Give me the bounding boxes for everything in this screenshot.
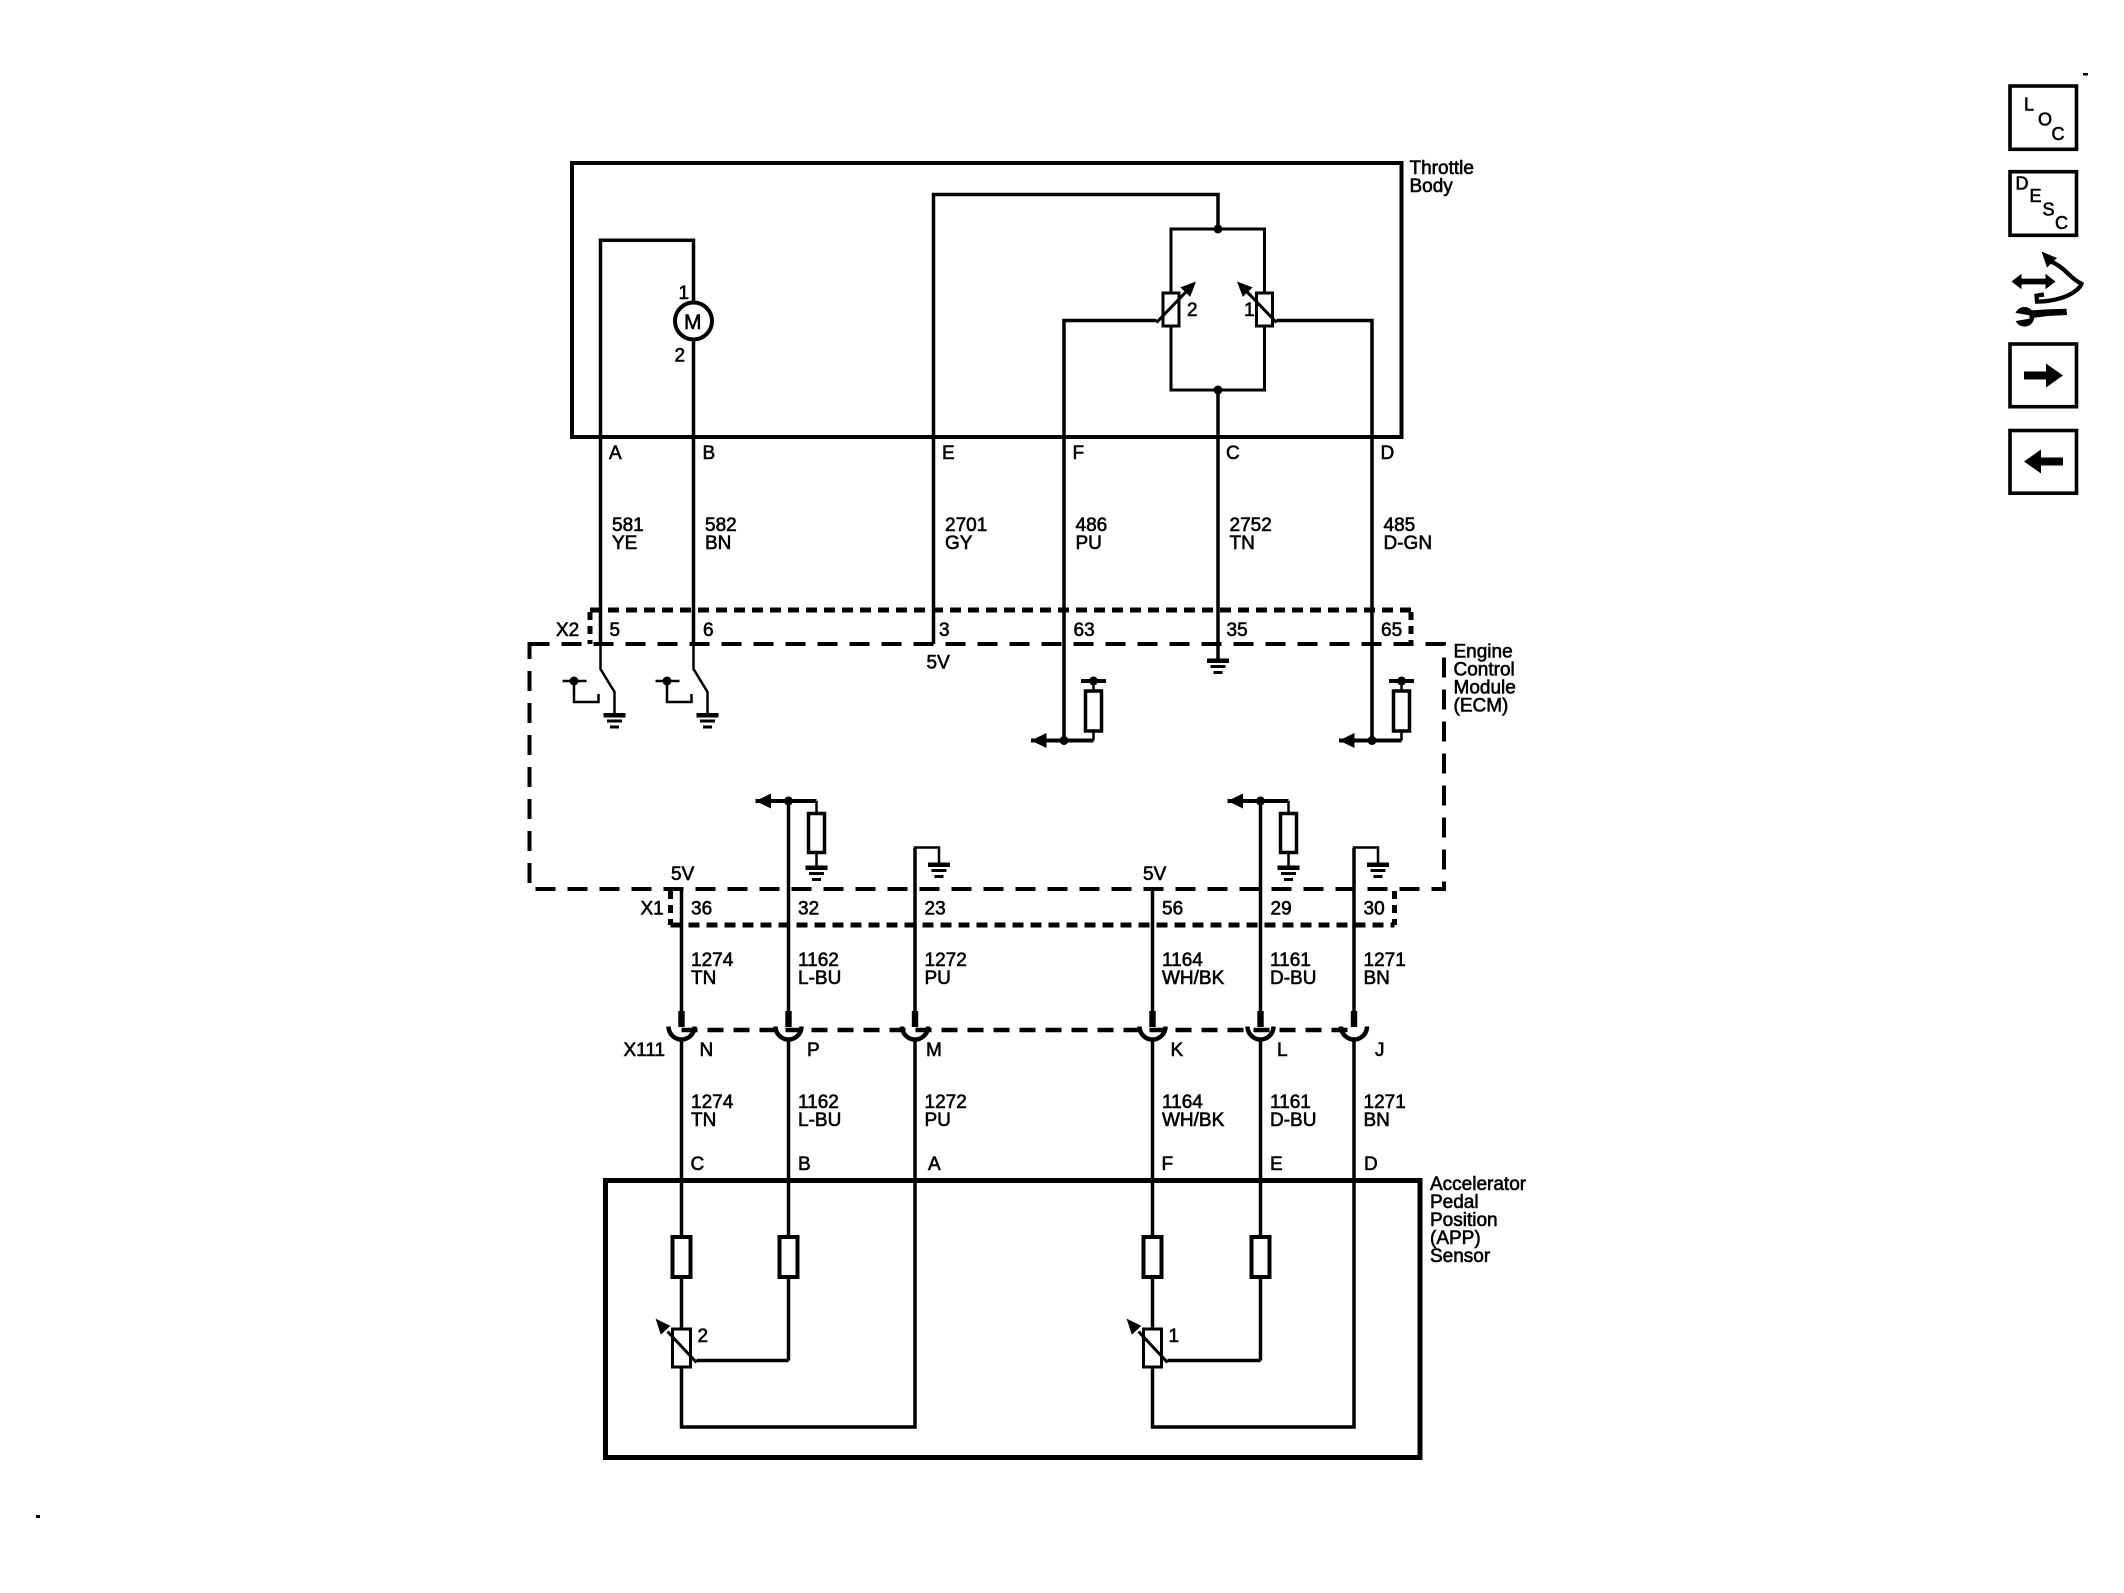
wire pin A to motor pin 1 xyxy=(601,240,694,437)
connector X111 terminal K xyxy=(1140,1011,1166,1040)
input resistor to ground (pin 32) xyxy=(756,794,828,882)
resistor (APP 1 signal) xyxy=(1252,1237,1270,1277)
wire 2701 GY xyxy=(932,437,936,644)
svg-text:WH/BK: WH/BK xyxy=(1162,1110,1225,1131)
svg-text:23: 23 xyxy=(925,899,946,920)
label 581 YE xyxy=(612,515,644,554)
svg-text:C: C xyxy=(1226,443,1240,464)
wire 582 BN xyxy=(692,437,696,646)
connector X111 terminal N xyxy=(669,1011,695,1040)
wire 1274 TN (pin 36) xyxy=(680,889,684,1011)
svg-text:J: J xyxy=(1375,1040,1385,1061)
connector X2 right stub xyxy=(1409,612,1414,644)
stray mark top right xyxy=(2083,73,2088,76)
svg-text:65: 65 xyxy=(1381,620,1402,641)
label 1161 D-BU xyxy=(1270,950,1316,989)
stray mark bottom left xyxy=(36,1515,40,1518)
svg-text:TN: TN xyxy=(691,968,716,989)
wire wiper tap to APP E xyxy=(1168,1359,1261,1363)
next arrow icon box xyxy=(2010,344,2077,407)
svg-text:L-BU: L-BU xyxy=(798,1110,841,1131)
connector X111 terminal P xyxy=(776,1011,802,1040)
label 582 BN xyxy=(705,515,737,554)
svg-text:Body: Body xyxy=(1410,176,1454,197)
LOC icon box xyxy=(2010,86,2077,149)
svg-text:D: D xyxy=(1381,443,1395,464)
svg-text:1: 1 xyxy=(1244,300,1255,321)
connector X1 dotted line xyxy=(671,923,1395,928)
svg-text:L: L xyxy=(1277,1040,1288,1061)
connector X111 terminal L xyxy=(1248,1011,1274,1040)
internal ground (pin 23) xyxy=(915,848,950,879)
svg-text:5V: 5V xyxy=(927,653,951,674)
wire 2752 TN xyxy=(1216,437,1220,659)
connector X1 left stub xyxy=(668,891,673,925)
svg-text:63: 63 xyxy=(1074,620,1095,641)
wire resistor to APP B pin xyxy=(787,1181,791,1238)
svg-text:2: 2 xyxy=(1187,300,1198,321)
wire 485 D-GN xyxy=(1370,437,1374,741)
wire APP 1 return to pin D xyxy=(1153,1181,1355,1428)
svg-text:X1: X1 xyxy=(641,899,664,920)
svg-text:1: 1 xyxy=(1169,1326,1180,1347)
APP sensor box xyxy=(606,1181,1421,1458)
wire 1161 D-BU (to APP E) xyxy=(1259,1040,1263,1181)
internal ground (pin 30) xyxy=(1354,848,1389,879)
svg-text:D-BU: D-BU xyxy=(1270,1110,1316,1131)
pull-up resistor (pin 65) xyxy=(1339,677,1414,749)
wire 1164 WH/BK (pin 56) xyxy=(1151,889,1155,1011)
svg-text:F: F xyxy=(1162,1154,1174,1175)
APP sensor 2 wiper element xyxy=(656,1319,697,1367)
connector X2 dotted line xyxy=(590,608,1411,613)
wire motor pin 2 to pin B xyxy=(692,340,696,438)
svg-text:WH/BK: WH/BK xyxy=(1162,968,1225,989)
label 1162 L-BU xyxy=(798,1092,841,1131)
wire APP E to resistor xyxy=(1259,1277,1263,1361)
label 1274 TN xyxy=(691,1092,734,1131)
label 486 PU xyxy=(1076,515,1108,554)
wire 1272 PU (to APP A) xyxy=(913,1040,917,1181)
svg-text:5V: 5V xyxy=(1143,864,1167,885)
svg-text:TN: TN xyxy=(691,1110,716,1131)
svg-text:GY: GY xyxy=(945,533,973,554)
resistor (APP 2 signal) xyxy=(780,1237,798,1277)
ECM dashed box xyxy=(530,644,1445,889)
label 1274 TN xyxy=(691,950,734,989)
wire TP sensor 1 wiper to pin D xyxy=(1277,321,1373,438)
svg-text:TN: TN xyxy=(1230,533,1255,554)
svg-text:PU: PU xyxy=(1076,533,1102,554)
wire 486 PU xyxy=(1062,437,1066,741)
svg-text:M: M xyxy=(926,1040,942,1061)
svg-text:BN: BN xyxy=(1364,968,1390,989)
svg-text:P: P xyxy=(807,1040,820,1061)
wire 1164 WH/BK (to APP F) xyxy=(1151,1040,1155,1181)
wire 1162 L-BU (to APP B) xyxy=(787,1040,791,1181)
label 1272 PU xyxy=(925,950,967,989)
label 2752 TN xyxy=(1230,515,1272,554)
svg-text:A: A xyxy=(609,443,622,464)
label 1161 D-BU xyxy=(1270,1092,1316,1131)
previous arrow icon box xyxy=(2010,431,2077,494)
label 1271 BN xyxy=(1364,1092,1406,1131)
wire resistor to wiper element xyxy=(1151,1277,1155,1329)
svg-text:E: E xyxy=(2030,186,2042,206)
label 2701 GY xyxy=(945,515,987,554)
svg-text:3: 3 xyxy=(939,620,950,641)
TP sensor 1 (variable resistor) xyxy=(1237,282,1277,327)
wire APP B to resistor xyxy=(787,1277,791,1361)
input resistor to ground (pin 29) xyxy=(1228,794,1300,882)
wire 1271 BN (to APP D) xyxy=(1352,1040,1356,1181)
label Engine Control Module (ECM) xyxy=(1454,642,1516,717)
wire 1274 TN (to APP C) xyxy=(680,1040,684,1181)
svg-text:C: C xyxy=(2052,124,2065,144)
diagnostic wrench icon xyxy=(2012,252,2082,327)
connector X111 terminal M xyxy=(902,1011,928,1040)
svg-text:F: F xyxy=(1073,443,1085,464)
label 485 D-GN xyxy=(1384,515,1433,554)
resistor (APP 1 supply) xyxy=(1144,1237,1162,1277)
svg-text:32: 32 xyxy=(798,899,819,920)
wire pin F to TP sensor 2 wiper xyxy=(1064,321,1157,438)
svg-text:E: E xyxy=(1270,1154,1283,1175)
TP sensor box xyxy=(1171,229,1265,390)
svg-text:L: L xyxy=(2024,95,2034,115)
svg-text:K: K xyxy=(1171,1040,1184,1061)
pull-up resistor (pin 63) xyxy=(1031,677,1106,749)
svg-text:5V: 5V xyxy=(671,864,695,885)
svg-text:YE: YE xyxy=(612,533,637,554)
svg-text:29: 29 xyxy=(1271,899,1292,920)
connector X1 right stub xyxy=(1392,891,1397,925)
svg-text:6: 6 xyxy=(703,620,714,641)
wire resistor to wiper element xyxy=(680,1277,684,1329)
svg-text:O: O xyxy=(2038,110,2052,130)
wire APP 2 return to pin A xyxy=(682,1181,916,1428)
label 1272 PU xyxy=(925,1092,967,1131)
wire APP C to resistor xyxy=(680,1181,684,1238)
label Accelerator Pedal Position (APP) Sensor xyxy=(1430,1174,1527,1267)
motor M xyxy=(675,303,712,340)
APP sensor 1 wiper element xyxy=(1127,1319,1168,1367)
svg-text:BN: BN xyxy=(705,533,731,554)
svg-text:X111: X111 xyxy=(624,1040,666,1061)
wire pin E to TP sensor supply node xyxy=(934,195,1219,438)
label Throttle Body xyxy=(1410,158,1474,197)
svg-text:Sensor: Sensor xyxy=(1430,1246,1491,1267)
svg-text:S: S xyxy=(2043,200,2055,220)
svg-text:PU: PU xyxy=(925,968,951,989)
svg-text:B: B xyxy=(703,443,716,464)
wire 581 YE xyxy=(599,437,603,646)
wire resistor to APP E pin xyxy=(1259,1181,1263,1238)
wire 1271 BN (pin 30) xyxy=(1352,848,1356,1011)
node top (TP supply) xyxy=(1214,225,1223,234)
svg-text:L-BU: L-BU xyxy=(798,968,841,989)
resistor (APP 2 supply) xyxy=(673,1237,691,1277)
svg-text:M: M xyxy=(684,311,702,334)
driver switch B (pin 6) xyxy=(656,644,719,729)
svg-text:(ECM): (ECM) xyxy=(1454,696,1509,717)
svg-text:X2: X2 xyxy=(556,620,579,641)
wire 1161 D-BU (pin 29) xyxy=(1259,801,1263,1011)
svg-text:E: E xyxy=(942,443,955,464)
connector X111 terminal J xyxy=(1341,1011,1367,1040)
driver switch A (pin 5) xyxy=(563,644,626,729)
DESC icon box xyxy=(2010,172,2077,236)
throttle body box xyxy=(572,163,1402,437)
label 1164 WH/BK xyxy=(1162,1092,1225,1131)
label 1162 L-BU xyxy=(798,950,841,989)
svg-text:D: D xyxy=(2016,174,2029,194)
svg-text:36: 36 xyxy=(691,899,712,920)
svg-text:BN: BN xyxy=(1364,1110,1390,1131)
svg-text:A: A xyxy=(928,1154,941,1175)
connector X111 dashed line xyxy=(682,1028,1355,1033)
wire wiper tap to APP B xyxy=(697,1359,789,1363)
svg-text:56: 56 xyxy=(1162,899,1183,920)
svg-text:1: 1 xyxy=(679,283,690,304)
svg-text:2: 2 xyxy=(698,1326,709,1347)
wire 1272 PU (pin 23) xyxy=(913,848,917,1011)
svg-text:B: B xyxy=(798,1154,811,1175)
wire 1162 L-BU (pin 32) xyxy=(787,801,791,1011)
svg-text:PU: PU xyxy=(925,1110,951,1131)
svg-text:30: 30 xyxy=(1364,899,1385,920)
svg-text:N: N xyxy=(700,1040,714,1061)
svg-text:D-BU: D-BU xyxy=(1270,968,1316,989)
svg-text:D-GN: D-GN xyxy=(1384,533,1433,554)
svg-text:35: 35 xyxy=(1227,620,1248,641)
wire TP return node to pin C xyxy=(1216,390,1220,437)
svg-text:C: C xyxy=(691,1154,705,1175)
svg-text:C: C xyxy=(2055,213,2068,233)
connector X2 left stub xyxy=(588,612,593,644)
svg-text:5: 5 xyxy=(610,620,621,641)
label 1164 WH/BK xyxy=(1162,950,1225,989)
wire APP F to resistor xyxy=(1151,1181,1155,1238)
ground (pin 35) xyxy=(1207,659,1229,675)
svg-text:2: 2 xyxy=(675,346,686,367)
node bottom (TP return) xyxy=(1214,386,1223,395)
svg-text:D: D xyxy=(1364,1154,1378,1175)
TP sensor 2 (variable resistor) xyxy=(1157,282,1197,327)
label 1271 BN xyxy=(1364,950,1406,989)
